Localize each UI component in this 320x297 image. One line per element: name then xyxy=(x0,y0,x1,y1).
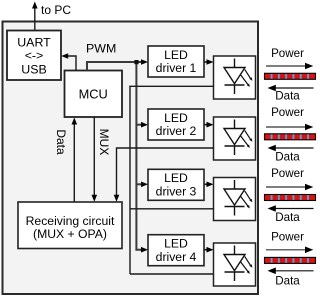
svg-text:driver 3: driver 3 xyxy=(156,185,197,199)
svg-text:LED: LED xyxy=(164,171,188,185)
svg-text:Data: Data xyxy=(54,129,68,155)
svg-text:Power: Power xyxy=(271,106,304,119)
svg-text:Receiving circuit: Receiving circuit xyxy=(26,214,115,228)
block LED driver 4 xyxy=(148,235,204,266)
wire return bus vertical xyxy=(129,86,131,274)
LED symbol D4 xyxy=(214,243,256,286)
svg-text:driver 2: driver 2 xyxy=(156,124,197,138)
svg-text:Power: Power xyxy=(271,167,304,180)
wire Data receiving circuit to MCU xyxy=(72,118,78,203)
svg-text:LED: LED xyxy=(164,237,188,251)
wire return LED D4 xyxy=(130,273,213,275)
arrow data in 2 xyxy=(268,145,314,152)
svg-text:Power: Power xyxy=(271,231,304,244)
arrow power out 3 xyxy=(266,184,313,191)
LED strip 4 xyxy=(265,257,316,263)
arrow power out 4 xyxy=(266,247,313,254)
wire to PC xyxy=(32,2,38,31)
block LED driver 3 xyxy=(148,169,204,200)
system enclosure box xyxy=(3,22,259,295)
svg-text:USB: USB xyxy=(21,62,46,76)
svg-text:LED: LED xyxy=(164,111,188,125)
wire LED driver 4 to LED D4 xyxy=(204,247,214,253)
LED symbol D2 xyxy=(214,117,256,160)
arrow data in 1 xyxy=(268,85,314,92)
block receiving circuit xyxy=(18,202,122,249)
block LED driver 1 xyxy=(148,46,204,77)
svg-text:UART: UART xyxy=(17,36,51,50)
svg-text:driver 1: driver 1 xyxy=(156,61,197,75)
wire MUX MCU to receiving circuit xyxy=(92,117,98,202)
wire MCU to UART xyxy=(61,53,76,70)
wire PWM MCU to LED driver 1 xyxy=(87,59,148,70)
LED symbol D3 xyxy=(214,178,256,221)
block MCU U2 xyxy=(65,71,123,118)
LED strip 1 xyxy=(265,73,316,79)
svg-text:driver 4: driver 4 xyxy=(156,250,197,264)
arrow power out 1 xyxy=(266,63,313,70)
svg-text:MCU: MCU xyxy=(79,87,108,102)
svg-text:PWM: PWM xyxy=(86,42,116,56)
block LED driver 2 xyxy=(148,109,204,140)
svg-text:Power: Power xyxy=(271,47,304,60)
LED strip 2 xyxy=(265,134,316,140)
svg-text:(MUX + OPA): (MUX + OPA) xyxy=(33,227,107,241)
svg-text:to PC: to PC xyxy=(41,3,71,17)
wire PWM branch to LED driver 4 xyxy=(136,247,148,253)
svg-text:<->: <-> xyxy=(25,49,44,63)
svg-text:LED: LED xyxy=(164,48,188,62)
wire PWM branch to LED driver 2 xyxy=(136,122,148,128)
wire PWM branch to LED driver 3 xyxy=(136,182,148,188)
svg-text:Data: Data xyxy=(275,211,300,224)
wire LED driver 2 to LED D2 xyxy=(204,122,214,128)
wire return LED D2 to receiving circuit xyxy=(114,148,214,202)
wire LED driver 3 to LED D3 xyxy=(204,182,214,188)
svg-text:MUX: MUX xyxy=(97,129,111,156)
arrow data in 4 xyxy=(268,268,314,275)
svg-text:Data: Data xyxy=(275,274,300,287)
arrow data in 3 xyxy=(268,205,314,212)
svg-text:Data: Data xyxy=(275,151,300,164)
wire return LED D1 xyxy=(129,85,213,87)
LED symbol D1 xyxy=(214,56,256,99)
wire LED driver 1 to LED D1 xyxy=(204,59,214,65)
LED strip 3 xyxy=(265,195,316,201)
wire return LED D3 xyxy=(130,208,214,210)
wire PWM bus vertical xyxy=(134,60,138,250)
arrow power out 2 xyxy=(266,124,313,131)
block UART<->USB U1 xyxy=(7,31,61,81)
svg-text:Data: Data xyxy=(275,89,300,102)
